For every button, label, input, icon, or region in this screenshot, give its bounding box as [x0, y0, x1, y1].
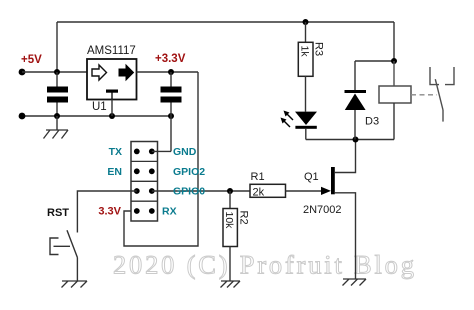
svg-text:RST: RST: [47, 207, 69, 219]
capacitor C2 plates: [161, 87, 182, 103]
label R1: [251, 171, 265, 183]
svg-text:TX: TX: [109, 146, 122, 158]
watermark 2020 (C) Profruit Blog: [113, 250, 417, 280]
LED emission arrows: [281, 111, 294, 128]
svg-text:AMS1117: AMS1117: [87, 45, 136, 57]
ground symbol (RST): [62, 281, 88, 288]
label R2 (rotated): [238, 211, 250, 225]
wire: D3 top link: [355, 60, 394, 62]
value 10k (rotated): [223, 212, 235, 230]
relay contact lever: [435, 79, 443, 110]
resistor R2 body: [223, 209, 237, 247]
wire: junction to R2: [229, 191, 231, 209]
svg-text:RX: RX: [162, 206, 177, 218]
capacitor C1 bottom stem: [56, 103, 58, 117]
junction node +3.3V / C2: [168, 69, 174, 75]
junction node relay top: [391, 58, 397, 64]
header pin EN: [134, 168, 140, 174]
transistor Q1 gate bar: [331, 167, 335, 194]
wire: GPIO0 row to RST drop: [77, 191, 136, 233]
regulator U1 input arrow: [92, 65, 107, 80]
header pin GPIO0 right: [149, 188, 155, 194]
relay contact fixed left: [430, 67, 439, 85]
junction node top rail / R3: [303, 19, 309, 25]
svg-text:R2: R2: [238, 211, 250, 225]
header connector body: [131, 142, 158, 222]
label U1: [92, 101, 107, 113]
capacitor C1 top stem: [56, 72, 58, 87]
diode D3 cathode bar: [345, 90, 367, 93]
wire: U1 output to 3.3V rail: [137, 71, 199, 73]
junction node C2 / header gnd: [168, 113, 174, 119]
wire: 3.3V feed to header (right drop, bottom run, up to pin): [124, 72, 198, 246]
junction node GPIO0 / R2: [227, 188, 233, 194]
header pin GPIO0 left: [134, 188, 140, 194]
pushbutton RST lever: [67, 230, 77, 257]
label +5V: [21, 54, 42, 66]
relay contact fixed right: [445, 67, 454, 85]
svg-text:GPIO2: GPIO2: [173, 166, 205, 178]
relay contact common stub: [442, 110, 444, 122]
label EN: [107, 166, 122, 178]
relay actuation dashed link: [411, 94, 437, 96]
wire: D3 to drain rail: [354, 110, 356, 140]
regulator U1 gnd tab: [106, 90, 118, 100]
LED D? triangle: [295, 112, 317, 125]
svg-text:R1: R1: [251, 171, 265, 183]
capacitor C2 bottom stem / header GND riser: [170, 103, 172, 152]
svg-text:GND: GND: [173, 146, 197, 158]
pushbutton RST actuator: [50, 238, 70, 255]
ground symbol (Q1 source): [343, 279, 367, 286]
wire: R1 to Q1 gate: [286, 190, 323, 192]
regulator U1 AMS1117 label: [87, 45, 136, 57]
LED cathode bar: [295, 126, 316, 129]
wire: +5V rail to U1 input: [22, 71, 87, 73]
terminal GND input: [19, 113, 26, 120]
header pin GND: [149, 149, 155, 155]
svg-text:2N7002: 2N7002: [303, 204, 342, 216]
svg-text:GPIO0: GPIO0: [173, 186, 205, 198]
resistor R1 body: [250, 184, 286, 197]
label GND: [173, 146, 197, 158]
svg-text:U1: U1: [92, 101, 107, 113]
svg-text:2k: 2k: [253, 187, 265, 199]
capacitor C1 plates: [47, 87, 68, 103]
wire: R3 to LED: [305, 76, 307, 111]
capacitor C2 top stem: [170, 72, 172, 87]
label GPIO2: [173, 166, 205, 178]
junction node C1 / gnd: [54, 113, 60, 119]
header pin GPIO2: [149, 168, 155, 174]
transistor Q1 source stub: [335, 193, 356, 279]
svg-text:3.3V: 3.3V: [98, 206, 121, 218]
label D3: [365, 116, 379, 128]
svg-text:Q1: Q1: [304, 171, 319, 183]
wire: RST to ground: [76, 258, 78, 282]
transistor Q1 drain stub: [335, 140, 356, 173]
label 2N7002: [303, 204, 342, 216]
svg-text:10k: 10k: [223, 212, 235, 230]
svg-text:R3: R3: [313, 42, 325, 56]
wire: rail to R3: [305, 22, 307, 42]
wire: top rail left drop to +5V node: [56, 22, 58, 72]
junction node +5V / C1: [54, 69, 60, 75]
junction node drain / D3: [353, 137, 359, 143]
label 3.3V: [98, 206, 121, 218]
wire: LED to drain rail: [305, 129, 307, 140]
svg-text:D3: D3: [365, 116, 379, 128]
wire: top +5V rail horizontal: [57, 21, 394, 23]
header pin TX: [134, 149, 140, 155]
wire: GND rail: [22, 115, 171, 117]
label +3.3V: [155, 53, 186, 65]
wire: header GND pin to gnd rail: [152, 150, 171, 152]
regulator U1 body: [87, 59, 137, 100]
relay K1 coil: [379, 61, 411, 140]
value 2k: [253, 187, 265, 199]
label GPIO0: [173, 186, 205, 198]
value 1k (rotated): [299, 46, 311, 58]
label Q1: [304, 171, 319, 183]
header pin 3.3V: [134, 208, 140, 214]
ground symbol (R2): [221, 281, 241, 288]
label RST: [47, 207, 69, 219]
wire: GPIO0 pin to R1: [152, 190, 250, 192]
wire: R2 to ground: [229, 247, 231, 282]
terminal +5V input: [19, 69, 26, 76]
label TX: [109, 146, 122, 158]
svg-text:+3.3V: +3.3V: [155, 53, 186, 65]
label R3 (rotated): [313, 42, 325, 56]
wire: drain rail (LED to relay): [306, 139, 394, 141]
svg-text:EN: EN: [107, 166, 122, 178]
diode D3 triangle: [345, 94, 366, 111]
wire: U1 gnd pin to rail: [111, 100, 113, 117]
junction node U1 gnd pin: [109, 113, 115, 119]
ground symbol (input filter): [44, 116, 69, 139]
transistor Q1 gate arrow: [321, 187, 331, 195]
wire: top rail right drop to relay node: [393, 22, 395, 61]
resistor R3 body: [298, 42, 313, 76]
wire: D3 anode drop: [354, 61, 356, 90]
header pin RX: [149, 208, 155, 214]
regulator U1 output arrow: [119, 65, 134, 80]
svg-text:+5V: +5V: [21, 54, 42, 66]
svg-text:2020 (C) Profruit Blog: 2020 (C) Profruit Blog: [113, 250, 417, 280]
label RX: [162, 206, 177, 218]
svg-text:1k: 1k: [299, 46, 311, 58]
